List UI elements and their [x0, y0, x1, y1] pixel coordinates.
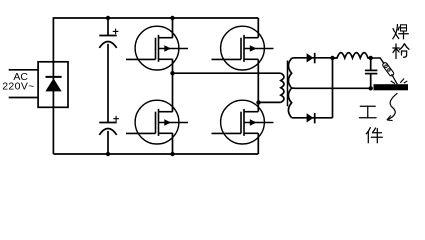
- svg-text:220V~: 220V~: [2, 81, 35, 93]
